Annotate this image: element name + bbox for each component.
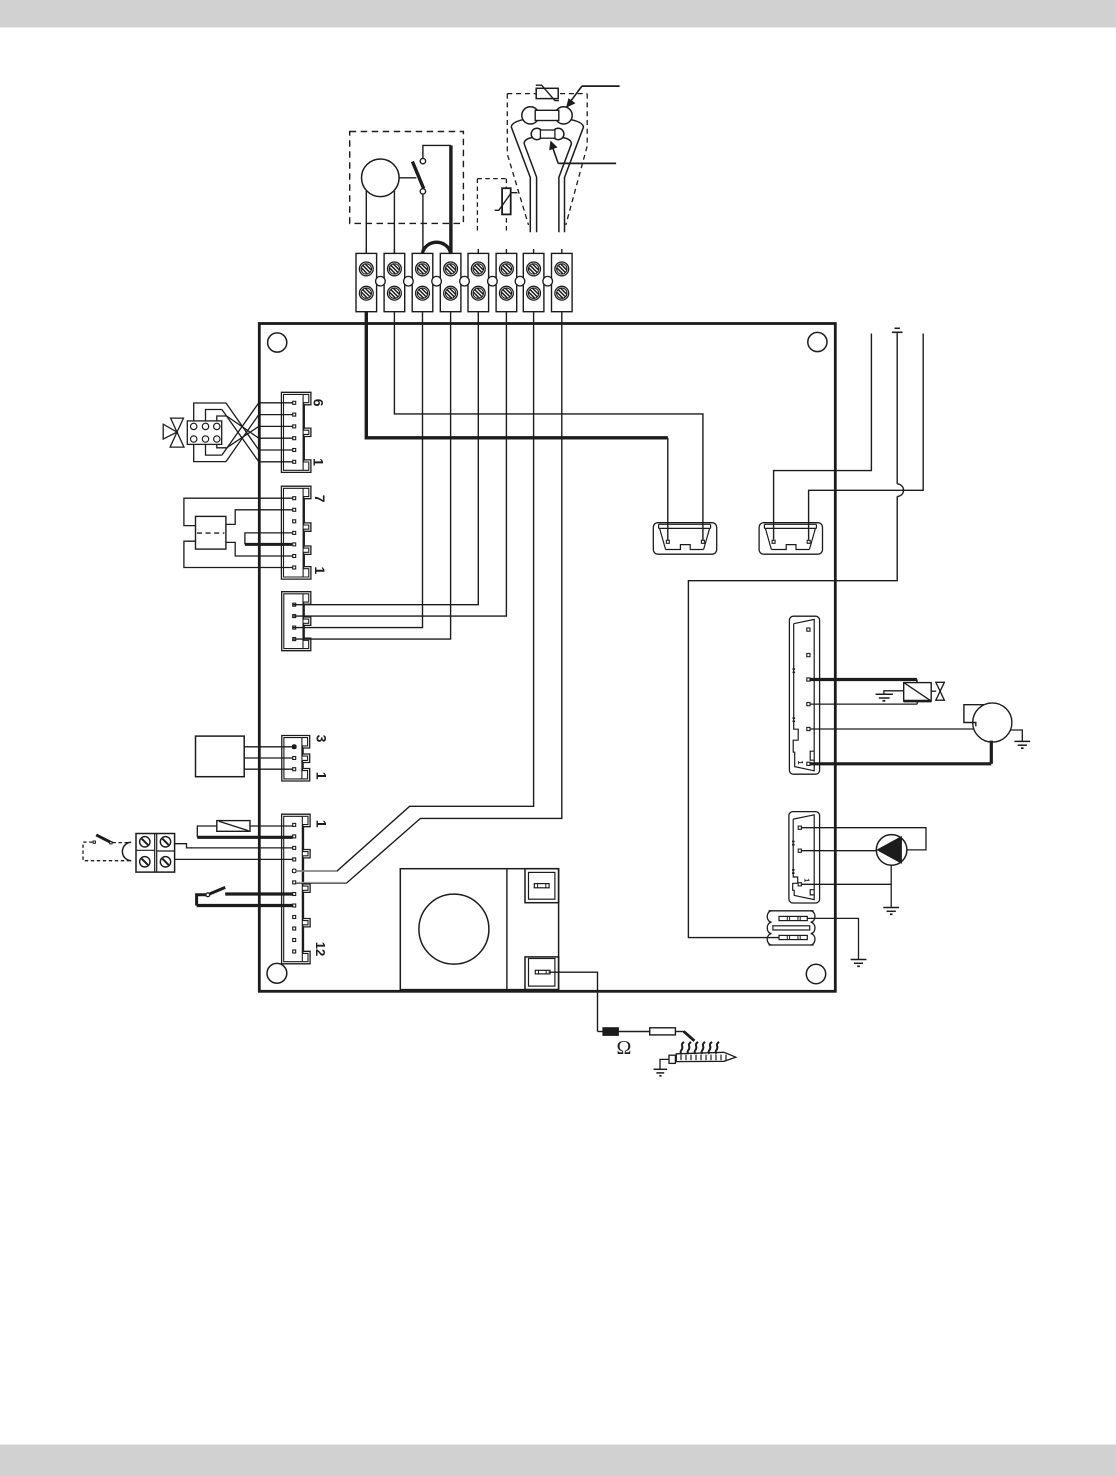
svg-text:1: 1 (314, 820, 330, 828)
earth lead with hop (688, 328, 903, 937)
wires to overheat capsule (511, 119, 583, 232)
spark generator bottom connector (525, 957, 559, 990)
X4 pin1 dot (292, 745, 296, 749)
filter earth wire (807, 918, 866, 966)
wire terminal 3 to X3 pin3 (293, 312, 423, 628)
electrode holder + earth (654, 1055, 676, 1076)
pressure sensor body (362, 159, 400, 197)
label 1 (X5) (314, 820, 330, 828)
mounting hole bottom-left (267, 963, 287, 983)
gas valve body (931, 682, 944, 700)
wire block to X5 pin4 (175, 858, 293, 860)
ignition resistor (650, 1028, 676, 1035)
wire sensor to switch (399, 177, 416, 179)
wire X2 pin1 (184, 541, 293, 567)
crossover wires to X1 (222, 403, 259, 462)
X5 pin6 stub (296, 882, 346, 884)
connector X7 (3-pin) (789, 812, 820, 903)
wire X6 to fan (810, 701, 917, 704)
X5 pin5 stub (296, 870, 337, 872)
switch contact lower (420, 189, 425, 194)
wire sensor to terminal 1 (365, 191, 367, 254)
room thermostat switch (dashed) (83, 842, 130, 861)
wires to NTC capsule (524, 137, 571, 232)
mounting hole top-left (268, 333, 287, 352)
connector X1 (6-pin) (281, 392, 311, 472)
fan (964, 703, 1012, 742)
modulating gas valve coil (904, 683, 932, 702)
wire terminal 4 to X3 pin4 (293, 312, 451, 639)
terminal block 2x2 (136, 834, 175, 873)
flow switch body (196, 516, 226, 549)
mounting hole top-right (808, 332, 827, 351)
loop into terminal block (122, 842, 131, 860)
burner bar (676, 1052, 736, 1061)
control board outline (259, 324, 835, 992)
wire lower contact to terminal 3 (422, 194, 424, 253)
spark generator top connector (525, 869, 559, 903)
electrode cable (675, 1031, 694, 1041)
suppressor bead (598, 1028, 619, 1036)
wire X6 to valve coil (thick) (810, 680, 917, 683)
label 6 (310, 399, 326, 407)
wire bead to resistor (618, 1031, 649, 1033)
connector X5 (12-pin) (282, 814, 311, 964)
wire B-right up and out (809, 334, 924, 540)
switch contact upper (420, 158, 425, 163)
pump earth (883, 865, 899, 914)
wire X7 pin3 to pump earth (802, 883, 892, 885)
room stat lever (96, 835, 110, 842)
svg-text:3: 3 (314, 735, 330, 743)
X1 pin leads (260, 403, 293, 462)
wire X7 pin2 to pump (802, 850, 877, 852)
wire terminal 7 to X5 pin5 (296, 312, 533, 871)
wire terminal 1 (thick) to connector A (366, 312, 668, 540)
mains connector B (759, 523, 822, 555)
terminal strip M1 (8 screw terminals) (356, 249, 572, 312)
svg-text:1: 1 (314, 772, 330, 780)
wire upper contact to L (423, 145, 451, 158)
probe pocket dashed outline (507, 94, 587, 225)
jumper link terminals 3-4 (423, 242, 451, 253)
sensor box (196, 736, 245, 777)
switch lever (412, 162, 423, 189)
wire terminal 8 to X5 pin6 (296, 312, 562, 883)
wire terminal 5 to X3 pin1 (293, 312, 479, 605)
wire X7 pin1 to pump (802, 828, 927, 850)
pump (876, 835, 907, 866)
omega symbol (616, 1037, 631, 1059)
fan earth (1010, 730, 1030, 748)
suppression filter (767, 911, 815, 945)
wire X6 to fan motor (810, 728, 976, 730)
mounting hole bottom-right (806, 964, 825, 983)
label 1 (X4) (314, 772, 330, 780)
bottom grey page band (0, 1445, 1116, 1476)
wire B-left up and out (774, 334, 872, 540)
DHW sensor dashed outline (477, 179, 506, 233)
connector X3 (4-pin) (282, 592, 311, 651)
svg-text:12: 12 (313, 942, 328, 956)
X7 pin1 mark (802, 878, 809, 882)
svg-text:1: 1 (312, 567, 328, 575)
pointer to NTC capsule (550, 142, 616, 164)
wire sensor to terminal 2 (393, 191, 395, 254)
mains connector A (653, 523, 716, 555)
wire X2 pin7 (184, 498, 293, 525)
wire terminal 2 to connector A (394, 312, 703, 540)
wire block to X5 pin3 (175, 844, 293, 848)
svg-text:1: 1 (310, 458, 326, 466)
gas valve symbol (163, 418, 184, 447)
coil earth (876, 691, 904, 701)
wire X2 pin2 (226, 542, 293, 556)
wire X2 pin6 (226, 510, 293, 525)
safety thermostat symbol (536, 85, 559, 100)
label 7 (312, 495, 328, 503)
HT lead (549, 972, 598, 1031)
label 1 (310, 458, 326, 466)
svg-text:6: 6 (310, 399, 326, 407)
wire (thick) to terminal 4 (449, 145, 452, 253)
wire X6 to fan (thick return) (810, 741, 991, 764)
label 3 (314, 735, 330, 743)
transformer block (400, 869, 558, 990)
top grey page band (0, 0, 1116, 28)
connector X6 (6-pin) (789, 616, 819, 774)
label 12 (313, 942, 328, 956)
flue stat switch (197, 887, 293, 905)
connector X2 (7-pin) (281, 486, 311, 579)
svg-text:7: 7 (312, 495, 328, 503)
flames (681, 1042, 719, 1054)
svg-text:Ω: Ω (616, 1037, 631, 1059)
X6 pin1 mark (796, 760, 805, 764)
wire X2 pin4 jumper (245, 533, 293, 545)
fuse F1 (197, 821, 292, 838)
connector X4 (3-pin) (282, 736, 310, 782)
NTC sensor capsule (531, 128, 564, 139)
pressure switch enclosure (dashed) (350, 132, 464, 224)
wires to X4 (244, 747, 293, 769)
room stat contacts (93, 841, 112, 844)
valve wiring loops (194, 403, 227, 462)
svg-text:1: 1 (802, 878, 809, 882)
gas valve coil block (187, 421, 221, 445)
overheat thermostat capsule (522, 107, 572, 124)
wire terminal 6 to X3 pin2 (293, 312, 507, 616)
pointer to safety thermostat (567, 86, 620, 107)
label 1 (X2) (312, 567, 328, 575)
DHW NTC thermistor (495, 188, 518, 214)
svg-text:1: 1 (796, 760, 805, 764)
